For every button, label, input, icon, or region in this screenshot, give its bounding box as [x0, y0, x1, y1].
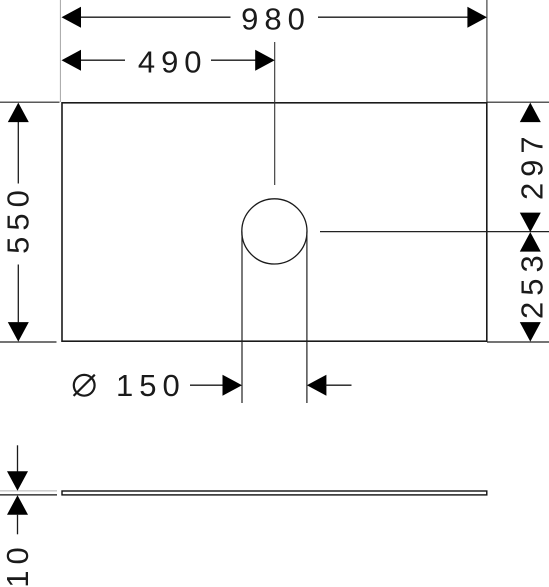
dim 490 arrow left	[62, 50, 82, 71]
dim 980 line left segment	[80, 16, 231, 18]
leader line from hole center to right	[320, 231, 549, 233]
dim 150 line right	[325, 384, 351, 386]
slab extension bottom-left	[0, 494, 57, 496]
extension line hole right tangent	[306, 232, 308, 404]
panel outline 980x550	[62, 103, 487, 341]
dim 297 arrow top	[520, 103, 541, 123]
extension line top-right horizontal	[487, 101, 549, 103]
dim 550 arrow bottom	[8, 322, 29, 342]
dim mid arrow down	[520, 213, 541, 233]
hole circle O150	[242, 199, 307, 264]
dim 980 line right segment	[318, 16, 468, 18]
svg-text:490: 490	[138, 45, 208, 80]
dim 490 arrow right	[255, 50, 275, 71]
dim 550 arrow top	[8, 103, 29, 123]
dim 10 arrow up	[7, 495, 28, 515]
svg-text:297: 297	[514, 130, 549, 200]
extension line top-left horizontal	[0, 101, 60, 103]
extension line hole left tangent	[241, 232, 243, 404]
dim 490 line right segment	[211, 59, 256, 61]
svg-text:550: 550	[1, 184, 36, 254]
dim 253 arrow bottom	[520, 322, 541, 342]
dim 150 arrow left pointing right	[223, 375, 243, 396]
dim 10 arrow down	[7, 471, 28, 491]
extension line bottom-left horizontal	[0, 341, 57, 343]
svg-text:150: 150	[116, 368, 186, 403]
side profile slab 10mm	[62, 491, 487, 495]
label O 150	[74, 375, 95, 396]
extension line right vertical (top)	[486, 0, 488, 102]
dim 10 line upper	[17, 445, 19, 471]
dim 490 line left segment	[80, 59, 125, 61]
dim 150 arrow right pointing left	[307, 375, 327, 396]
extension line left vertical (top)	[59, 0, 61, 102]
svg-text:253: 253	[514, 249, 549, 319]
dim 150 line left	[190, 384, 224, 386]
extension line 490 center vertical	[274, 42, 276, 185]
dim 10 line lower	[17, 515, 19, 535]
slab extension top-left grey	[0, 490, 57, 492]
dim 980 arrow right	[467, 7, 487, 28]
svg-text:980: 980	[241, 2, 311, 37]
extension line bottom-right horizontal	[487, 341, 549, 343]
dim 550 line lower segment	[17, 265, 19, 323]
dim 550 line upper segment	[17, 122, 19, 184]
dim mid arrow up	[520, 232, 541, 252]
svg-text:10: 10	[0, 541, 35, 587]
dim 980 arrow left	[62, 7, 82, 28]
